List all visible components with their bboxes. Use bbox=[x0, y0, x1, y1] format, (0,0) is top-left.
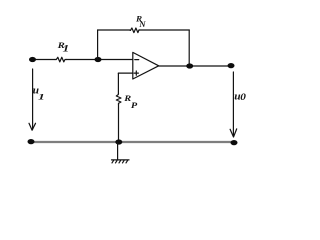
ground bbox=[112, 160, 130, 163]
label u0 bbox=[234, 91, 246, 102]
wire: top right horizontal bbox=[140, 29, 190, 31]
wire: RP upper vertical bbox=[117, 73, 119, 93]
arrow u1 bbox=[29, 69, 36, 130]
svg-text:1: 1 bbox=[38, 93, 45, 102]
svg-text:1: 1 bbox=[63, 44, 70, 53]
node: bottom right dot bbox=[231, 140, 238, 145]
node: output terminal dot bbox=[228, 63, 235, 68]
wire: ground stub bbox=[117, 142, 119, 160]
svg-text:P: P bbox=[131, 102, 138, 111]
svg-text:0: 0 bbox=[240, 93, 246, 103]
op-amp U1 bbox=[133, 52, 159, 79]
resistor RN bbox=[130, 28, 140, 33]
wire: bottom rail (gray) bbox=[31, 141, 234, 143]
wire: feedback right vertical bbox=[188, 30, 190, 66]
node: output junction dot bbox=[186, 63, 193, 68]
wire: R1 to op-amp minus input bbox=[66, 59, 133, 61]
wire: feedback left vertical bbox=[97, 30, 99, 60]
svg-text:N: N bbox=[138, 19, 146, 29]
label RN bbox=[135, 14, 147, 29]
node: ground junction dot bbox=[115, 139, 122, 144]
wire: left node to R1 bbox=[33, 59, 56, 61]
node: input junction dot bbox=[29, 57, 36, 62]
arrow u0 bbox=[230, 72, 237, 137]
label u1 bbox=[33, 85, 45, 102]
wire: op-amp output bbox=[159, 65, 231, 67]
label RP bbox=[123, 95, 137, 111]
node: feedback junction dot bbox=[95, 57, 102, 62]
resistor R1 bbox=[55, 57, 66, 62]
wire: op-amp plus input bbox=[118, 72, 132, 74]
node: bottom left dot bbox=[28, 139, 35, 144]
label R1 bbox=[56, 42, 69, 54]
resistor RP bbox=[116, 94, 121, 105]
wire: RP lower vertical bbox=[118, 104, 120, 142]
wire: top left horizontal bbox=[98, 29, 130, 31]
